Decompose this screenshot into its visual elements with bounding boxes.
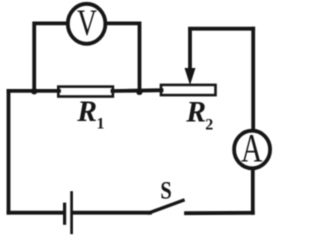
svg-text:R: R — [76, 96, 97, 128]
svg-text:V: V — [77, 3, 97, 44]
svg-text:1: 1 — [97, 116, 105, 133]
resistor R1 — [58, 87, 113, 97]
wire: bottom right segment — [186, 211, 253, 215]
switch S — [149, 200, 183, 212]
battery cell — [65, 193, 72, 233]
wire: voltmeter right lead (down to main bus) — [107, 23, 140, 91]
svg-text:S: S — [160, 175, 171, 204]
wire: right vertical upper (to ammeter) — [251, 29, 255, 130]
ammeter A — [234, 126, 270, 171]
junction node: voltmeter right tap on bus — [136, 89, 142, 95]
wire: bottom left segment — [9, 211, 63, 215]
svg-text:A: A — [241, 126, 263, 171]
junction node: voltmeter left tap on bus — [31, 88, 37, 94]
resistor R2 (rheostat track) — [161, 85, 216, 95]
wire: bus segment between R1 and R2 — [113, 88, 162, 93]
svg-text:2: 2 — [205, 117, 213, 134]
label R1 — [76, 96, 104, 133]
wire: bottom middle segment — [73, 211, 150, 215]
wire: main bus left segment — [9, 89, 60, 93]
rheostat wiper arrow — [185, 29, 195, 84]
wire: top-right horizontal — [190, 27, 253, 31]
wire: voltmeter left lead (down to main bus) — [34, 23, 66, 91]
svg-text:R: R — [185, 96, 206, 128]
label R2 — [185, 96, 213, 133]
wire: right vertical lower (ammeter to bottom) — [251, 170, 255, 213]
voltmeter V — [68, 3, 106, 44]
wire: left vertical — [7, 91, 11, 213]
